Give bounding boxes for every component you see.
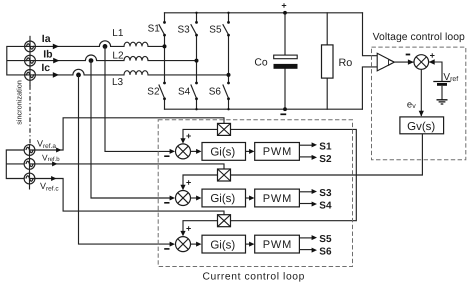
svg-text:S4: S4: [319, 200, 332, 211]
svg-text:+: +: [430, 50, 435, 60]
wire Vref.a to multiplier M1: [30, 118, 225, 150]
wire PWM1 out S1: [299, 144, 312, 146]
svg-text:S4: S4: [178, 87, 191, 98]
svg-text:L3: L3: [112, 77, 124, 88]
wire A3 to Gi3: [191, 243, 198, 245]
wire PWM3 out S6: [299, 249, 312, 251]
ground: [437, 100, 448, 104]
summer A3: [176, 237, 191, 252]
wire left bus connecting Va Vb Vc: [7, 46, 25, 75]
svg-text:+: +: [281, 1, 286, 11]
svg-text:L2: L2: [112, 50, 124, 61]
wire Vref.b to multiplier M2: [30, 164, 225, 169]
svg-text:Current control loop: Current control loop: [203, 271, 305, 282]
wire PWM2 out S4: [299, 203, 312, 205]
capacitor Co plates: [274, 55, 298, 59]
label minus A2: [164, 202, 169, 204]
switch S2: [159, 46, 165, 109]
svg-text:sincronization: sincronization: [14, 80, 23, 125]
wire DC- sense to amplifier: [362, 67, 377, 109]
wire amplitude bus to M1 and M3: [231, 129, 357, 220]
svg-text:Ic: Ic: [41, 62, 50, 74]
dashed box current control loop: [158, 120, 352, 267]
summer A1: [176, 144, 191, 159]
svg-text:+: +: [186, 131, 191, 141]
wire phase c (Ic line) with sensor hump: [25, 69, 229, 75]
sincronization dash-dot link: [29, 85, 31, 146]
wire bottom DC bus: [165, 108, 363, 110]
wire Gi1 to PWM1: [246, 150, 251, 152]
svg-text:S6: S6: [319, 247, 332, 258]
label - DC: [280, 113, 286, 115]
svg-text:S2: S2: [147, 87, 160, 98]
arrow Vref.a: [56, 148, 61, 153]
wire Gi2 to PWM2: [246, 197, 251, 199]
wire Gi3 to PWM3: [246, 243, 251, 245]
source Vref.a: [24, 145, 35, 156]
wire M2 output to summer A2: [183, 175, 218, 185]
node Co top: [283, 11, 287, 15]
wire chain of Vref source stack: [29, 145, 31, 190]
source Vb: [25, 55, 36, 66]
svg-text:Ia: Ia: [42, 33, 51, 45]
current sensor dot Ib: [89, 58, 94, 63]
summer A2: [176, 191, 191, 206]
svg-text:S3: S3: [319, 188, 332, 199]
svg-text:S5: S5: [319, 234, 332, 245]
wire phase a (Ia line) with sensor hump: [25, 41, 165, 47]
svg-text:Ro: Ro: [339, 57, 353, 69]
block Gi(s) row2: [202, 189, 246, 207]
node phase b / leg 2: [195, 59, 199, 63]
block PWM row1: [255, 143, 300, 161]
source Vref.b: [24, 159, 35, 170]
block PWM row3: [255, 235, 300, 253]
current sensor dot Ic: [76, 73, 81, 78]
wire PWM3 out S5: [299, 237, 312, 239]
svg-text:PWM: PWM: [263, 193, 292, 205]
svg-text:Gi(s): Gi(s): [210, 239, 235, 251]
svg-text:Gv(s): Gv(s): [407, 121, 435, 133]
svg-text:Gi(s): Gi(s): [210, 193, 235, 205]
svg-text:Gi(s): Gi(s): [210, 147, 235, 159]
summer V (circle with X): [414, 55, 429, 70]
svg-text:S5: S5: [209, 24, 222, 35]
svg-text:Co: Co: [254, 58, 268, 69]
resistor Ro leads: [326, 13, 328, 109]
wire PWM2 out S3: [299, 191, 312, 193]
switch S6: [223, 75, 229, 109]
resistor Ro body: [322, 45, 334, 78]
wire Gv output to multiplier M2: [231, 134, 423, 175]
wire U1 output to summer V: [394, 61, 414, 63]
switch S5: [223, 13, 229, 75]
block PWM row2: [255, 189, 300, 207]
svg-text:+: +: [186, 177, 191, 187]
wire top DC bus: [165, 12, 363, 14]
svg-text:+: +: [186, 224, 191, 234]
svg-text:PWM: PWM: [263, 146, 292, 158]
svg-text:Voltage control loop: Voltage control loop: [373, 32, 465, 43]
wire PWM1 out S2: [299, 156, 312, 158]
wire Ic sense down to summer A3: [79, 75, 171, 244]
wire Vref.c to multiplier M3: [30, 179, 225, 215]
op-amp U1 (voltage sensor): [377, 53, 394, 71]
wire Vref battery to summer V: [429, 62, 442, 82]
svg-text:S1: S1: [148, 24, 161, 35]
wire Ib sense down to summer A2: [91, 61, 170, 198]
switch S4: [191, 61, 197, 110]
wire M1 output to summer A1: [183, 129, 218, 138]
node phase c / leg 3: [227, 73, 231, 77]
junction dots on switch terminals: [76, 11, 287, 111]
svg-text:S6: S6: [209, 87, 222, 98]
wire A1 to Gi1: [191, 150, 198, 152]
battery Vref: [433, 81, 450, 83]
svg-text:S3: S3: [178, 24, 191, 35]
wire phase b (Ib line) with sensor hump: [25, 55, 197, 61]
source Va: [25, 41, 36, 52]
label minus A1: [164, 155, 169, 157]
wire DC+ sense to amplifier: [363, 13, 378, 56]
block Gi(s) row1: [202, 143, 246, 161]
svg-text:S2: S2: [319, 154, 332, 165]
wire ev summer V to Gv: [420, 69, 422, 116]
capacitor Co leads: [284, 13, 286, 109]
multiplier M2: [218, 169, 231, 181]
multiplier M3: [218, 215, 231, 227]
dashed box voltage control loop: [372, 47, 466, 160]
source Vc: [25, 70, 36, 81]
svg-text:PWM: PWM: [263, 239, 292, 251]
wire M3 output to summer A3: [183, 221, 218, 232]
arrow Vref.c: [51, 176, 56, 181]
wire A2 to Gi2: [191, 197, 198, 199]
current sensor dot Ia: [103, 44, 108, 49]
arrow Ib: [53, 58, 59, 64]
source Vref.c: [24, 173, 35, 184]
multiplier M1: [218, 123, 231, 135]
wire chain of source stack: [29, 36, 31, 85]
switch S3: [191, 13, 197, 61]
switch S1: [159, 13, 165, 47]
svg-text:S1: S1: [319, 141, 332, 152]
node phase a / leg 1: [163, 44, 167, 48]
node Co bottom: [283, 107, 287, 111]
block Gv(s): [400, 117, 444, 134]
svg-text:Ib: Ib: [43, 49, 52, 61]
arrow Ia: [53, 44, 59, 50]
svg-text:L1: L1: [112, 28, 124, 39]
label minus at summer V: [406, 54, 411, 56]
wire Ia sense down to summer A1: [105, 46, 170, 151]
label minus A3: [164, 248, 169, 250]
arrow Vref.b: [52, 161, 57, 166]
arrow Ic: [53, 72, 59, 78]
block Gi(s) row3: [202, 235, 246, 253]
wire left bus connecting Vref sources: [6, 150, 24, 179]
